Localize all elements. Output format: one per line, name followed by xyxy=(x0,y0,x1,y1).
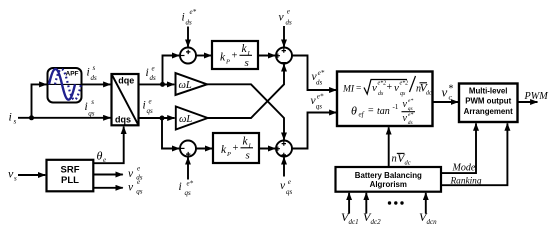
svg-text:qs: qs xyxy=(136,187,143,195)
block MI and theta_ef calculation xyxy=(337,72,433,127)
svg-text:dqs: dqs xyxy=(115,115,131,125)
block Battery Balancing Algorithm xyxy=(336,167,442,192)
svg-text:θ: θ xyxy=(351,104,357,118)
summer S3 xyxy=(180,141,196,157)
label i_qs_e xyxy=(143,97,154,115)
svg-text:e*: e* xyxy=(318,69,325,77)
svg-text:ωL: ωL xyxy=(179,114,192,125)
gain omega-L1 xyxy=(176,73,208,95)
label v_qs_e PLL output xyxy=(128,178,143,195)
svg-text:e: e xyxy=(137,178,140,186)
svg-text:n: n xyxy=(392,154,397,165)
svg-text:v: v xyxy=(128,181,134,193)
svg-text:s: s xyxy=(14,118,17,126)
wire V_dcn input xyxy=(425,193,427,214)
svg-text:θ: θ xyxy=(97,149,103,163)
svg-text:e: e xyxy=(152,65,155,73)
block dqe/dqs transform xyxy=(112,74,139,125)
wire V_dc2 input xyxy=(365,193,367,214)
label i_qs_e* reference xyxy=(179,179,194,197)
svg-text:Battery Balancing: Battery Balancing xyxy=(355,171,422,180)
block APF adaptive filter xyxy=(48,68,82,103)
svg-text:Multi-level: Multi-level xyxy=(469,86,508,95)
svg-text:Mode: Mode xyxy=(452,163,476,174)
svg-text:e: e xyxy=(103,156,106,164)
svg-text:i: i xyxy=(146,67,149,79)
svg-text:e: e xyxy=(137,165,140,173)
svg-text:i: i xyxy=(85,101,88,113)
wire v_ds_e into S2 xyxy=(283,26,285,47)
svg-text:dcn: dcn xyxy=(427,218,438,226)
svg-text:MI: MI xyxy=(342,85,355,95)
block SRF PLL xyxy=(47,160,94,192)
svg-text:+: + xyxy=(387,82,393,93)
block Multi-level PWM output Arrangement xyxy=(459,84,518,123)
wire v_ds_e PLL output xyxy=(93,174,123,176)
label nVdc xyxy=(392,153,411,166)
svg-text:e*: e* xyxy=(408,98,413,104)
svg-text:v: v xyxy=(403,113,408,124)
wire MI output v_c* xyxy=(433,101,459,103)
label V_dc2 xyxy=(363,210,381,226)
wire Mode xyxy=(441,123,476,173)
svg-text:ds: ds xyxy=(91,74,98,82)
svg-text:s: s xyxy=(91,98,94,106)
wire APF output to dqe xyxy=(82,83,111,85)
svg-text:e: e xyxy=(288,178,291,186)
label i_ds_s xyxy=(87,64,98,82)
svg-text:e*: e* xyxy=(317,92,324,100)
svg-text:s: s xyxy=(245,57,249,69)
svg-text:e: e xyxy=(287,7,290,15)
svg-text:i: i xyxy=(182,12,185,24)
node v_s input label xyxy=(8,167,17,183)
svg-text:tan: tan xyxy=(377,106,390,117)
svg-text:v: v xyxy=(403,99,408,110)
wire PI1 to S2 xyxy=(258,55,275,57)
svg-text:e*2: e*2 xyxy=(400,81,409,87)
svg-text:dc2: dc2 xyxy=(371,218,382,226)
label v_qs_e feedforward xyxy=(280,178,293,196)
wire nVdc battery to MI xyxy=(388,127,390,167)
ellipsis dots xyxy=(388,201,404,204)
svg-text:e*2: e*2 xyxy=(378,81,387,87)
svg-text:ds: ds xyxy=(408,120,413,126)
label i_qs_s xyxy=(85,98,95,117)
svg-text:+: + xyxy=(232,51,238,62)
block PI1 kp+kI/s xyxy=(212,41,258,69)
node i_s input label xyxy=(9,110,17,126)
svg-text:ds: ds xyxy=(378,91,384,97)
wire omega-L2 cross to S2 xyxy=(208,64,284,118)
svg-text:qs: qs xyxy=(316,102,323,110)
svg-text:qs: qs xyxy=(147,107,154,115)
svg-text:s: s xyxy=(246,150,250,162)
wire S4 output v_qs_e* to MI xyxy=(292,113,337,149)
gain omega-L2 xyxy=(176,107,208,130)
summer S4 xyxy=(276,141,292,158)
wire PI2 to S4 xyxy=(259,148,275,150)
svg-text:e*: e* xyxy=(190,8,197,16)
svg-text:e: e xyxy=(149,97,152,105)
svg-text:SRF: SRF xyxy=(61,165,80,176)
svg-text:ds: ds xyxy=(150,74,157,82)
svg-text:+: + xyxy=(233,143,239,154)
svg-text:s: s xyxy=(14,175,17,183)
wire i_ds_e* into S1 xyxy=(187,27,189,47)
svg-text:dc: dc xyxy=(405,159,411,166)
label V_dcn xyxy=(419,210,437,226)
svg-text:e*: e* xyxy=(187,179,194,187)
label v_qs_e* xyxy=(311,92,324,110)
svg-text:PWM output: PWM output xyxy=(465,97,511,106)
svg-text:Algrorism: Algrorism xyxy=(370,180,407,189)
wire theta_e to dqs xyxy=(93,127,123,164)
label theta_e xyxy=(97,149,107,165)
label v_ds_e PLL output xyxy=(128,165,143,182)
svg-text:v: v xyxy=(279,11,285,23)
label v_ds_e* xyxy=(312,69,325,87)
svg-text:qs: qs xyxy=(88,109,95,117)
label V_dc1 xyxy=(341,210,359,226)
wire S1 to PI1 xyxy=(196,55,211,57)
svg-text:i: i xyxy=(179,181,182,193)
svg-text:=: = xyxy=(368,106,374,117)
svg-text:i: i xyxy=(87,67,90,79)
svg-text:i: i xyxy=(9,110,12,124)
wire S3 to PI2 xyxy=(196,148,212,150)
wire v_qs_e PLL output xyxy=(93,187,123,189)
svg-text:qs: qs xyxy=(408,106,413,112)
svg-text:dqe: dqe xyxy=(118,75,134,85)
svg-text:qs: qs xyxy=(286,188,293,196)
wire i_s branch to APF xyxy=(32,84,47,117)
svg-text:*: * xyxy=(448,84,453,95)
svg-text:dc: dc xyxy=(426,91,432,97)
svg-text:-1: -1 xyxy=(393,103,399,111)
svg-text:v: v xyxy=(442,85,448,100)
wire Ranking xyxy=(441,123,507,185)
label v_c* xyxy=(442,84,454,102)
wire i_qs_e to omega-L2 xyxy=(139,117,175,119)
wire i_ds_e to omega-L1 xyxy=(139,83,175,85)
summer S2 xyxy=(276,48,292,64)
summer S1 xyxy=(180,48,196,64)
svg-text:s: s xyxy=(93,64,96,72)
wire PWM output xyxy=(518,101,538,103)
svg-text:PLL: PLL xyxy=(61,175,79,186)
wire i_s to dqs input xyxy=(18,117,111,119)
wire i_qs_e* into S3 xyxy=(187,157,189,179)
svg-text:v: v xyxy=(128,168,134,180)
label i_ds_e xyxy=(146,65,157,83)
junction on i_s xyxy=(29,115,34,120)
wire V_dc1 input xyxy=(348,193,350,214)
label v_ds_e feedforward xyxy=(279,7,293,26)
svg-text:=: = xyxy=(356,84,361,94)
svg-text:P: P xyxy=(225,59,230,66)
svg-text:ds: ds xyxy=(186,19,193,27)
junction i_ds_e xyxy=(160,82,165,87)
svg-text:Ranking: Ranking xyxy=(450,176,482,186)
svg-text:PWM: PWM xyxy=(524,91,549,102)
svg-text:v: v xyxy=(372,82,377,94)
wire i_ds_e branch to summer S1 xyxy=(163,56,180,85)
svg-text:e*: e* xyxy=(408,112,413,118)
wire i_qs_e branch to summer S3 xyxy=(162,118,179,149)
svg-text:dc1: dc1 xyxy=(349,218,359,226)
svg-text:qs: qs xyxy=(185,189,192,197)
svg-text:APF: APF xyxy=(66,71,79,78)
label i_ds_e* reference xyxy=(182,8,197,26)
svg-text:ds: ds xyxy=(286,18,293,26)
wire v_s to SRF PLL xyxy=(18,174,45,176)
junction i_qs_e xyxy=(160,116,165,121)
svg-text:Arrangement: Arrangement xyxy=(464,107,513,116)
svg-text:P: P xyxy=(226,151,231,158)
svg-text:i: i xyxy=(143,100,146,112)
wire S2 output v_ds_e* to MI xyxy=(292,56,337,91)
wire omega-L1 cross to S4 xyxy=(207,84,284,140)
block PI2 kp+kI/s xyxy=(213,133,259,163)
svg-text:qs: qs xyxy=(400,91,406,97)
svg-text:ωL: ωL xyxy=(179,80,192,91)
wire v_qs_e into S4 xyxy=(283,157,285,176)
svg-text:ds: ds xyxy=(316,79,323,87)
svg-text:v: v xyxy=(394,82,399,94)
